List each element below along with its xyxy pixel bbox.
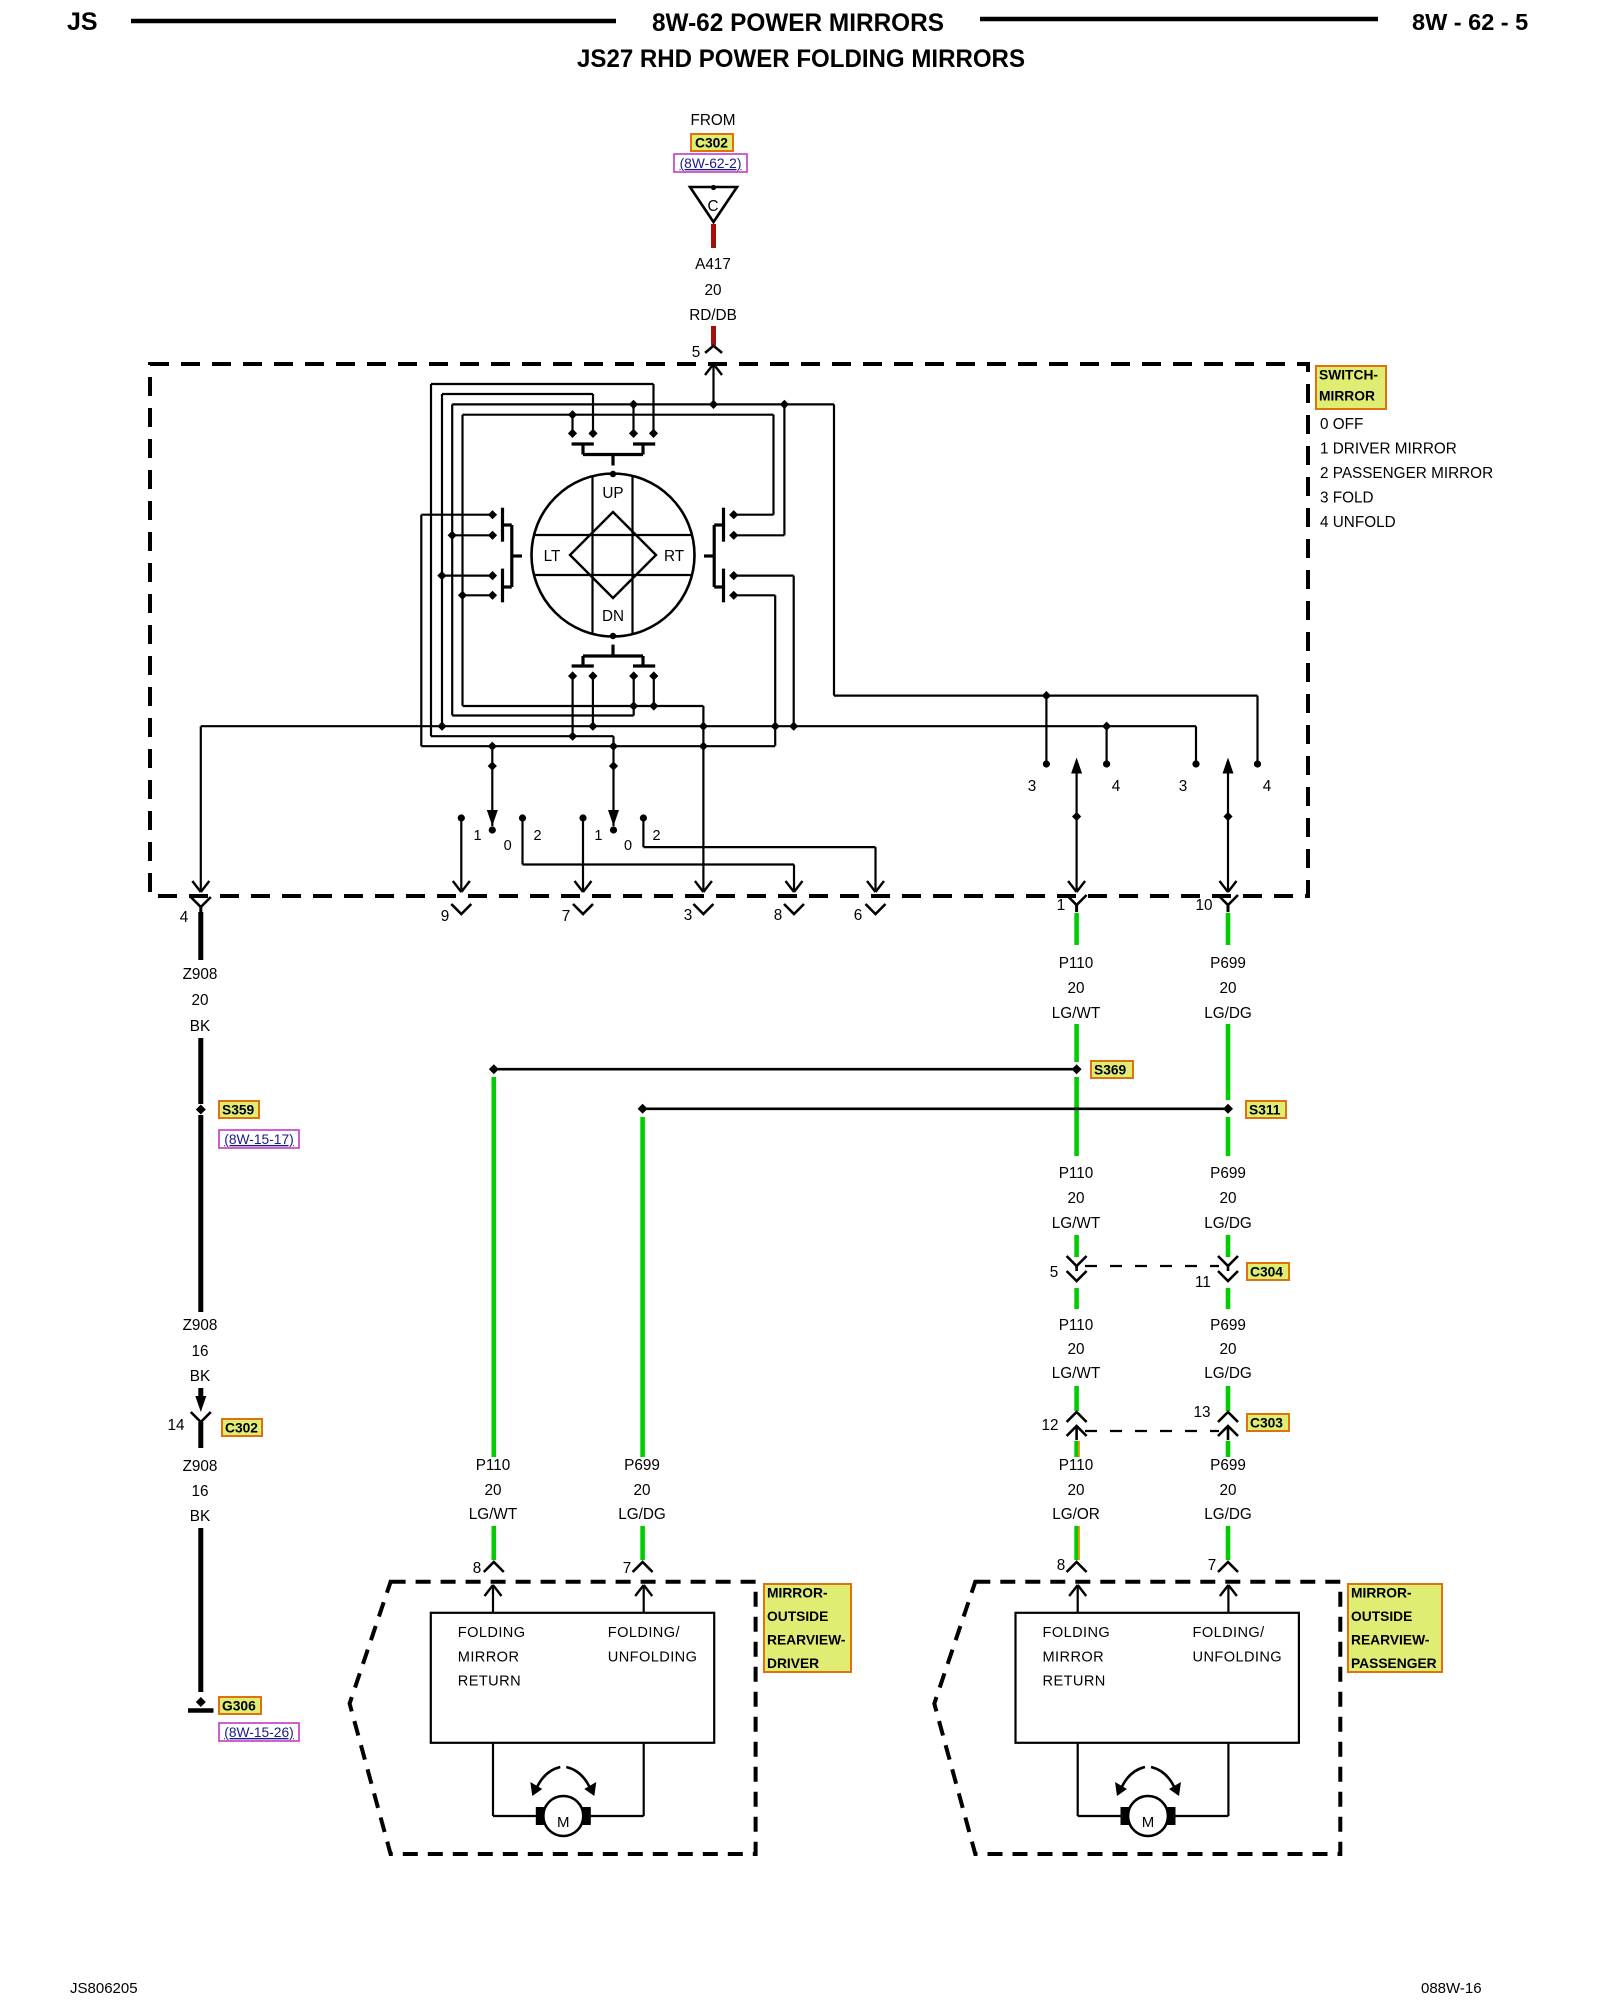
svg-text:P110: P110 (1059, 1317, 1094, 1334)
svg-text:P699: P699 (1210, 955, 1246, 972)
svg-text:20: 20 (191, 992, 208, 1009)
splice S359 (196, 1105, 206, 1115)
svg-text:P110: P110 (1059, 1457, 1094, 1474)
fold contact 3 (passenger) (1192, 760, 1199, 767)
svg-text:Z908: Z908 (183, 1317, 218, 1334)
svg-text:4: 4 (1263, 778, 1272, 795)
bus A fold feed (834, 694, 1258, 696)
svg-text:20: 20 (1219, 1482, 1236, 1499)
svg-text:1: 1 (1057, 897, 1066, 914)
DN contact drops (571, 676, 573, 736)
svg-text:PASSENGER: PASSENGER (1351, 1656, 1437, 1671)
svg-text:G306: G306 (222, 1698, 256, 1713)
svg-text:13: 13 (1193, 1404, 1210, 1421)
svg-text:SWITCH-: SWITCH- (1319, 367, 1378, 382)
svg-text:2: 2 (533, 828, 541, 844)
svg-text:9: 9 (441, 908, 450, 925)
svg-text:1: 1 (473, 828, 481, 844)
svg-text:UP: UP (602, 485, 623, 502)
wire A417 (RD/DB) upper segment (711, 224, 716, 248)
svg-text:14: 14 (167, 1417, 185, 1434)
svg-text:JS: JS (67, 8, 98, 36)
svg-text:UNFOLDING: UNFOLDING (608, 1650, 698, 1666)
mirror motor wiring (492, 1743, 494, 1816)
svg-text:7: 7 (623, 1560, 632, 1577)
svg-text:20: 20 (1067, 1482, 1084, 1499)
svg-text:RT: RT (664, 548, 684, 565)
fold contact 4 (passenger) (1254, 760, 1261, 767)
ground G306 (196, 1697, 206, 1707)
svg-text:LG/DG: LG/DG (1204, 1506, 1252, 1523)
svg-text:BK: BK (190, 1018, 211, 1035)
svg-text:2 PASSENGER MIRROR: 2 PASSENGER MIRROR (1320, 465, 1493, 482)
svg-text:MIRROR: MIRROR (1319, 388, 1375, 403)
svg-text:P110: P110 (1059, 955, 1094, 972)
mirror inner block (1016, 1613, 1299, 1743)
svg-text:FOLDING/: FOLDING/ (608, 1625, 681, 1641)
svg-text:8: 8 (473, 1560, 482, 1577)
bus 715 (452, 714, 634, 716)
header rule left (131, 19, 616, 24)
mirror dashed boundary (350, 1582, 756, 1854)
svg-text:S311: S311 (1249, 1102, 1281, 1117)
svg-text:4: 4 (1112, 778, 1121, 795)
svg-text:C302: C302 (225, 1420, 258, 1435)
switch contact set RT (729, 510, 738, 519)
svg-text:P110: P110 (1059, 1165, 1094, 1182)
mirror inner block (431, 1613, 714, 1743)
svg-text:LG/WT: LG/WT (1052, 1005, 1100, 1022)
svg-text:7: 7 (1208, 1557, 1217, 1574)
svg-text:20: 20 (1219, 1190, 1236, 1207)
svg-text:1: 1 (594, 828, 602, 844)
svg-text:MIRROR-: MIRROR- (767, 1585, 828, 1600)
svg-text:LT: LT (544, 548, 561, 565)
svg-text:REARVIEW-: REARVIEW- (1351, 1632, 1430, 1647)
connector C302 (top label) (691, 134, 733, 151)
svg-text:LG/WT: LG/WT (1052, 1365, 1100, 1382)
component label SWITCH-MIRROR (1316, 366, 1386, 409)
svg-text:11: 11 (1195, 1274, 1211, 1291)
svg-text:DRIVER: DRIVER (767, 1656, 819, 1671)
svg-text:3: 3 (684, 907, 693, 924)
svg-text:P699: P699 (1210, 1165, 1246, 1182)
svg-text:8: 8 (1057, 1557, 1066, 1574)
svg-text:FOLDING/: FOLDING/ (1193, 1625, 1266, 1641)
wire Z908 16 BK (198, 1115, 203, 1312)
svg-text:P699: P699 (1210, 1317, 1246, 1334)
switch knob circle (532, 474, 695, 637)
component label (1348, 1584, 1442, 1672)
svg-text:0: 0 (504, 838, 512, 854)
link 8W-15-17 (219, 1130, 299, 1148)
svg-text:20: 20 (633, 1482, 650, 1499)
svg-text:LG/OR: LG/OR (1052, 1506, 1100, 1523)
mirror pin arrows (492, 1585, 494, 1613)
knob diamond (570, 512, 656, 598)
svg-text:1 DRIVER MIRROR: 1 DRIVER MIRROR (1320, 441, 1457, 458)
motor M (543, 1796, 583, 1836)
svg-text:OUTSIDE: OUTSIDE (767, 1609, 828, 1624)
switch contact set LT (488, 510, 497, 519)
splice S311 (643, 1108, 1228, 1111)
wire A417 (RD/DB) lower segment (711, 326, 716, 346)
mirror pin arrows (1077, 1585, 1079, 1613)
wire L3 right drop (833, 404, 835, 695)
svg-text:8: 8 (774, 907, 783, 924)
splice S369 (494, 1068, 1077, 1071)
wire P110 from pin 1 (1074, 913, 1079, 945)
node on L4 to top contact (568, 410, 577, 419)
svg-text:LG/DG: LG/DG (618, 1506, 666, 1523)
header rule right (980, 17, 1378, 22)
wire P699 driver branch (640, 1117, 645, 1457)
svg-text:20: 20 (1067, 1341, 1084, 1358)
connector symbol C (triangle) (690, 187, 737, 222)
bus 737 (431, 735, 614, 737)
svg-text:3 FOLD: 3 FOLD (1320, 490, 1374, 507)
svg-text:RD/DB: RD/DB (689, 307, 737, 324)
wire Z908 16 BK lower (198, 1422, 203, 1448)
svg-text:C304: C304 (1250, 1264, 1283, 1279)
svg-text:M: M (1142, 1814, 1155, 1831)
switch contact set DN (611, 645, 614, 656)
wire L4 (463, 414, 774, 416)
wire P699 from pin 10 (1226, 913, 1231, 945)
fold contact 4 (driver) (1103, 760, 1110, 767)
svg-text:4 UNFOLD: 4 UNFOLD (1320, 514, 1396, 531)
svg-text:5: 5 (1050, 1264, 1059, 1281)
fold contact 3 (driver) (1043, 760, 1050, 767)
svg-text:LG/DG: LG/DG (1204, 1215, 1252, 1232)
svg-text:8W-62 POWER MIRRORS: 8W-62 POWER MIRRORS (652, 9, 944, 37)
svg-text:0: 0 (624, 838, 632, 854)
svg-text:UNFOLDING: UNFOLDING (1193, 1650, 1283, 1666)
svg-text:10: 10 (1195, 897, 1212, 914)
connector C303 pins 12 / 13 (1067, 1412, 1087, 1422)
svg-text:RETURN: RETURN (1043, 1674, 1106, 1690)
motor rotation arrows (535, 1767, 560, 1791)
svg-text:BK: BK (190, 1508, 211, 1525)
wire L1 (431, 383, 654, 385)
svg-text:RETURN: RETURN (458, 1674, 521, 1690)
pin 5 mating half connector (705, 346, 722, 353)
pin 5 wire into switch (712, 365, 714, 404)
wire L4 right drop (772, 415, 774, 515)
svg-text:P110: P110 (476, 1457, 511, 1474)
svg-text:REARVIEW-: REARVIEW- (767, 1632, 846, 1647)
svg-text:6: 6 (854, 907, 863, 924)
svg-text:(8W-15-26): (8W-15-26) (224, 1725, 294, 1740)
svg-text:LG/WT: LG/WT (469, 1506, 517, 1523)
selector switch A (vertical adjust driver/pass) (458, 814, 465, 821)
svg-text:FOLDING: FOLDING (458, 1625, 526, 1641)
svg-text:FROM: FROM (690, 112, 735, 129)
bus 706 (463, 705, 704, 707)
bus 726 (ground) (201, 725, 1196, 727)
connector C304 pins 5 / 11 (1067, 1256, 1087, 1266)
wire Z908 20 BK (198, 912, 203, 960)
pin 1 wiper wire (1075, 771, 1077, 890)
node on L3 to top contact (629, 400, 638, 409)
svg-text:MIRROR: MIRROR (458, 1650, 520, 1666)
motor rotation arrows (1120, 1767, 1145, 1791)
svg-text:12: 12 (1041, 1417, 1058, 1434)
pin 10 wiper wire (1227, 771, 1229, 890)
bus 746 (421, 745, 775, 747)
svg-text:16: 16 (191, 1483, 208, 1500)
wire L2 (442, 393, 593, 395)
svg-text:8W - 62 - 5: 8W - 62 - 5 (1412, 9, 1528, 35)
svg-text:088W-16: 088W-16 (1421, 1980, 1482, 1997)
svg-text:JS806205: JS806205 (70, 1980, 138, 1997)
svg-text:P699: P699 (1210, 1457, 1246, 1474)
svg-text:M: M (557, 1814, 570, 1831)
svg-text:MIRROR-: MIRROR- (1351, 1585, 1412, 1600)
svg-text:16: 16 (191, 1343, 208, 1360)
svg-text:0 OFF: 0 OFF (1320, 416, 1363, 433)
connector C302 pin 14 (195, 1396, 206, 1412)
switch contact set UP (568, 429, 577, 438)
link 8W-15-26 (219, 1723, 299, 1741)
svg-text:3: 3 (1179, 778, 1188, 795)
wire L3 (feed bus) (452, 403, 834, 405)
svg-text:2: 2 (652, 828, 660, 844)
svg-text:OUTSIDE: OUTSIDE (1351, 1609, 1412, 1624)
svg-text:JS27 RHD POWER FOLDING MIRRORS: JS27 RHD POWER FOLDING MIRRORS (577, 45, 1025, 73)
svg-text:A417: A417 (695, 256, 731, 273)
svg-text:LG/DG: LG/DG (1204, 1005, 1252, 1022)
wire P110 driver branch (491, 1077, 496, 1457)
svg-text:DN: DN (602, 608, 624, 625)
svg-text:S359: S359 (222, 1102, 255, 1117)
knob chords (591, 476, 593, 633)
svg-text:Z908: Z908 (183, 966, 218, 983)
svg-text:MIRROR: MIRROR (1043, 1650, 1105, 1666)
svg-text:FOLDING: FOLDING (1043, 1625, 1111, 1641)
selector switch B (579, 814, 586, 821)
svg-text:S369: S369 (1094, 1062, 1127, 1077)
svg-text:20: 20 (484, 1482, 501, 1499)
svg-text:(8W-62-2): (8W-62-2) (680, 156, 742, 171)
svg-text:20: 20 (1219, 1341, 1236, 1358)
svg-text:BK: BK (190, 1368, 211, 1385)
node on L3 to right contact (780, 400, 789, 409)
svg-text:20: 20 (1067, 1190, 1084, 1207)
svg-text:4: 4 (180, 909, 189, 926)
svg-text:5: 5 (692, 344, 701, 361)
motor M (1128, 1796, 1168, 1836)
mirror dashed boundary (934, 1582, 1340, 1854)
svg-text:20: 20 (704, 282, 721, 299)
svg-text:C: C (707, 198, 718, 215)
svg-text:C302: C302 (695, 135, 728, 150)
switch-mirror dashed boundary (150, 364, 1308, 896)
svg-text:(8W-15-17): (8W-15-17) (224, 1132, 294, 1147)
svg-text:LG/DG: LG/DG (1204, 1365, 1252, 1382)
svg-text:C303: C303 (1250, 1415, 1283, 1430)
svg-text:20: 20 (1219, 980, 1236, 997)
svg-text:Z908: Z908 (183, 1458, 218, 1475)
svg-text:LG/WT: LG/WT (1052, 1215, 1100, 1232)
svg-text:3: 3 (1028, 778, 1037, 795)
svg-text:P699: P699 (624, 1457, 660, 1474)
component label (764, 1584, 851, 1672)
svg-text:7: 7 (562, 908, 571, 925)
mirror motor wiring (1077, 1743, 1079, 1816)
svg-text:20: 20 (1067, 980, 1084, 997)
link 8W-62-2 (674, 154, 747, 172)
